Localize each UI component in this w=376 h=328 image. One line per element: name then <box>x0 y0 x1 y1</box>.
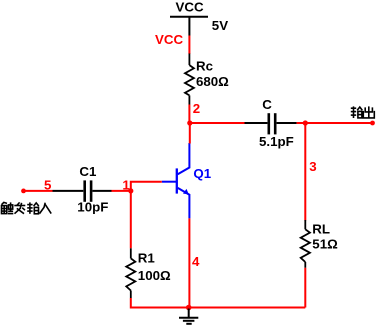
node 2 junction dot <box>187 120 192 125</box>
output terminal dot <box>370 121 375 126</box>
svg-text:51Ω: 51Ω <box>312 237 338 252</box>
svg-text:10pF: 10pF <box>77 200 108 215</box>
入 char <box>40 203 52 214</box>
wire node1 down to R1 (red) <box>130 191 132 248</box>
wire node3 down to RL (red) <box>304 123 306 221</box>
svg-text:C: C <box>262 97 272 112</box>
wire node2 to capacitor C (red) <box>190 122 245 124</box>
输 char <box>27 202 39 213</box>
wire RL to bottom rail (red) <box>304 268 306 308</box>
svg-text:1: 1 <box>122 178 130 193</box>
node 1 junction dot <box>128 188 133 193</box>
collector lead <box>178 143 190 174</box>
emitter lead with arrow <box>178 188 190 219</box>
resistor RL <box>301 220 310 268</box>
wire C1 to node 1 (red) <box>112 190 131 192</box>
resistor Rc <box>185 54 194 105</box>
base lead <box>162 181 177 183</box>
transistor Q1 (NPN, blue) <box>162 143 190 218</box>
wire C to output (red) <box>297 122 373 124</box>
ground junction dot <box>186 305 192 311</box>
wire node2 to collector (red) <box>189 123 191 144</box>
svg-text:5: 5 <box>44 178 52 193</box>
svg-text:Rc: Rc <box>196 59 213 74</box>
wire R1 to bottom rail (red) <box>130 298 132 309</box>
ground symbol <box>179 309 198 324</box>
wire VCC stub to Rc (red) <box>188 36 190 55</box>
触发输入 input label (drawn glyphs) <box>2 202 52 213</box>
svg-text:5V: 5V <box>212 18 228 33</box>
svg-text:VCC: VCC <box>155 32 183 47</box>
发 char <box>14 202 25 213</box>
input terminal dot <box>21 189 26 194</box>
触 char <box>2 202 14 213</box>
node 3 junction dot <box>303 120 308 125</box>
出 char <box>363 106 374 118</box>
svg-text:2: 2 <box>193 101 200 116</box>
wire node1 step up to base (red) <box>131 182 162 191</box>
svg-text:5.1pF: 5.1pF <box>259 134 294 149</box>
resistor R1 <box>126 248 135 298</box>
wire Rc to node 2 (red) <box>188 105 190 124</box>
capacitor C <box>245 113 297 134</box>
bottom ground rail wire (red) <box>131 307 305 309</box>
svg-text:4: 4 <box>192 254 200 269</box>
输出 output label (drawn glyphs) <box>351 106 375 118</box>
wire input to C1 (red) <box>24 190 53 192</box>
输 char <box>351 106 363 118</box>
wire emitter to ground rail (red) <box>188 218 190 307</box>
svg-text:680Ω: 680Ω <box>196 74 229 89</box>
svg-text:RL: RL <box>312 221 330 236</box>
svg-text:R1: R1 <box>138 251 156 266</box>
svg-text:VCC: VCC <box>176 0 204 14</box>
base bar <box>176 168 178 193</box>
svg-text:3: 3 <box>309 159 316 174</box>
capacitor C1 <box>53 180 112 201</box>
svg-text:C1: C1 <box>79 164 97 179</box>
svg-text:100Ω: 100Ω <box>138 268 171 283</box>
svg-text:Q1: Q1 <box>193 166 211 181</box>
power symbol VCC (bar) <box>170 17 208 36</box>
